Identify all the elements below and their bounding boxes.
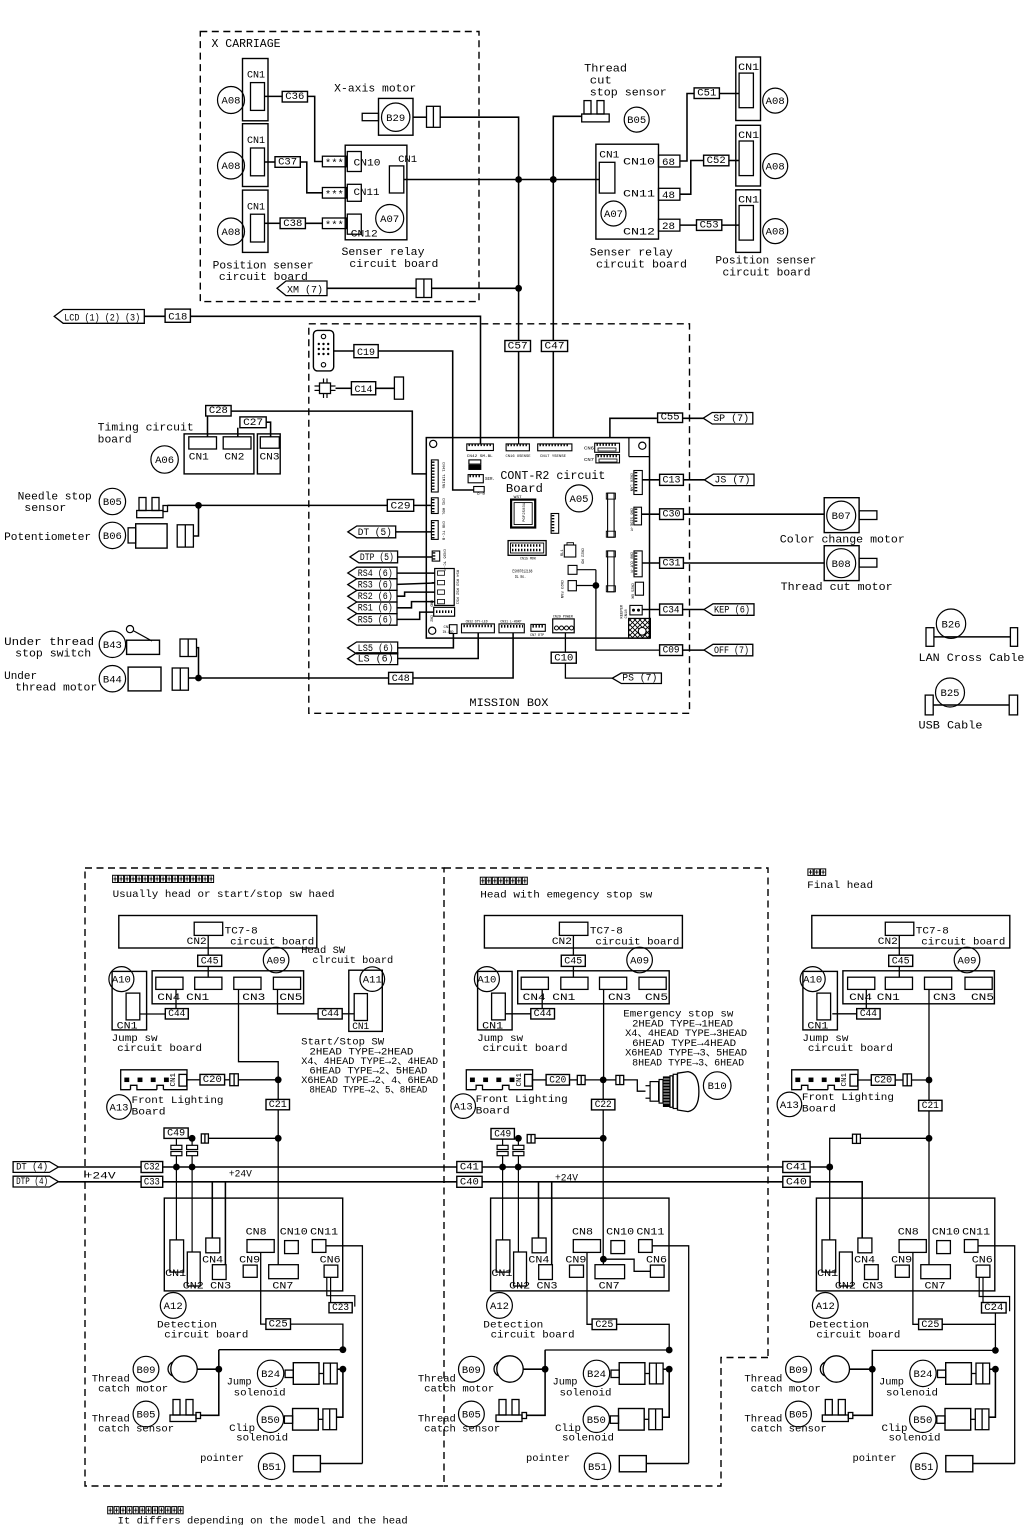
C24 bracket b3 bbox=[979, 1277, 1009, 1311]
connector label C30 bbox=[660, 509, 684, 520]
svg-text:B51: B51 bbox=[915, 1463, 934, 1474]
wire RS2 bbox=[397, 592, 435, 596]
svg-text:A05: A05 bbox=[570, 495, 589, 506]
wire CN3 down b2 bbox=[603, 989, 605, 1080]
left connector CN8 TC-B bbox=[431, 521, 438, 540]
junction bbox=[515, 285, 522, 292]
svg-text:DL No.: DL No. bbox=[515, 576, 526, 580]
svg-text:circuit board: circuit board bbox=[117, 1043, 202, 1055]
svg-text:A08: A08 bbox=[222, 228, 241, 239]
svg-text:8HEAD TYPE→3、6HEAD: 8HEAD TYPE→3、6HEAD bbox=[632, 1058, 744, 1070]
wire C30 to color change motor bbox=[683, 513, 824, 515]
clip solenoid B50 bbox=[910, 1406, 936, 1432]
jump sw circuit board bbox=[803, 971, 838, 1030]
svg-text:A12: A12 bbox=[164, 1302, 183, 1313]
svg-text:C52: C52 bbox=[707, 155, 726, 167]
connector CN3 (head board) bbox=[234, 977, 261, 989]
svg-text:B50: B50 bbox=[913, 1416, 932, 1427]
wire CN2 to C45 bbox=[572, 935, 574, 955]
connector CN11 (detection board) bbox=[312, 1240, 326, 1253]
connector CN1 (head board) bbox=[561, 977, 588, 989]
svg-text:CN3: CN3 bbox=[260, 451, 280, 463]
cap symbol 2 b2 bbox=[513, 1145, 524, 1149]
connector SER bbox=[468, 475, 483, 483]
connector label C55 bbox=[658, 413, 683, 423]
svg-text:C45: C45 bbox=[564, 956, 582, 968]
svg-text:circuit board: circuit board bbox=[723, 268, 811, 280]
wire sensor to junction bbox=[168, 504, 199, 506]
thread catch motor icon bbox=[823, 1356, 849, 1382]
connector CN3 (timing) bbox=[257, 434, 280, 474]
motor connector bbox=[172, 668, 188, 690]
svg-text:CN6: CN6 bbox=[972, 1254, 993, 1266]
wire cap1 to CN1 b1 bbox=[175, 1167, 177, 1240]
svg-text:CN32 STY-LED: CN32 STY-LED bbox=[466, 620, 489, 624]
junction 1350 b3 bbox=[992, 1347, 999, 1354]
svg-text:A10: A10 bbox=[803, 976, 822, 987]
svg-text:CN9: CN9 bbox=[239, 1254, 260, 1266]
wire motor to junction bbox=[188, 677, 198, 679]
wire CN8 CUT-M to C31 bbox=[642, 562, 659, 564]
connector CN1 (head sw board) bbox=[354, 994, 367, 1021]
connector CN6 (detection board) bbox=[650, 1265, 664, 1277]
svg-text:CN11: CN11 bbox=[310, 1226, 338, 1238]
svg-text:CN2: CN2 bbox=[183, 1280, 204, 1292]
wire CN2 to C45 bbox=[898, 935, 900, 955]
wire C19 to CONT-R2 bbox=[378, 351, 474, 490]
wire junction to C29 bbox=[199, 504, 388, 506]
svg-text:Front Lighting: Front Lighting bbox=[476, 1094, 568, 1106]
junction 1138 b2 bbox=[600, 1135, 607, 1142]
svg-text:CN15 MDK: CN15 MDK bbox=[520, 558, 537, 562]
wire C49 line b2 bbox=[535, 1137, 603, 1139]
svg-text:CN9: CN9 bbox=[891, 1254, 912, 1266]
svg-text:C30: C30 bbox=[663, 509, 681, 521]
flag PS (7) bbox=[612, 673, 661, 684]
svg-text:C40: C40 bbox=[460, 1177, 479, 1189]
junction line1 b2 CN2 bbox=[515, 1164, 522, 1171]
board ref A05 bbox=[566, 485, 593, 512]
svg-text:CN5: CN5 bbox=[279, 992, 302, 1004]
svg-text:Head with emegency stop sw: Head with emegency stop sw bbox=[480, 889, 653, 901]
svg-text:solenoid: solenoid bbox=[234, 1387, 286, 1399]
switch ref B43 bbox=[99, 631, 125, 657]
bus line2 taps block1 CN4 bbox=[211, 1182, 213, 1238]
board ref A08 (right top) bbox=[763, 88, 788, 113]
wire sensor to C47 line bbox=[553, 116, 581, 437]
svg-text:CN8: CN8 bbox=[898, 1226, 919, 1238]
connector after C49 b1 bbox=[201, 1134, 208, 1143]
connector CN7 (detection board) bbox=[269, 1265, 299, 1279]
right connector CN6 SIDE-M bbox=[634, 507, 642, 525]
svg-text:CN10: CN10 bbox=[354, 157, 381, 169]
connector after C49 b2 bbox=[527, 1135, 535, 1144]
svg-text:RS4 RS3 RS2 RS1: RS4 RS3 RS2 RS1 bbox=[455, 570, 459, 605]
connector CN10 (detection board) bbox=[285, 1241, 299, 1254]
wire CN20 to C13 bbox=[642, 479, 659, 481]
connector CN10 (detection board) bbox=[611, 1241, 625, 1254]
wire C29 to CONT-R2 bbox=[414, 504, 431, 506]
svg-text:C29: C29 bbox=[391, 501, 411, 513]
connector CN9 (detection board) bbox=[570, 1265, 584, 1277]
svg-text:B50: B50 bbox=[587, 1416, 606, 1427]
svg-text:C13: C13 bbox=[663, 475, 681, 487]
crosshatch block bbox=[629, 618, 651, 638]
connector CN6 (detection board) bbox=[324, 1265, 338, 1277]
flag RS3 (6) bbox=[348, 579, 397, 591]
board ref A08 (right middle) bbox=[763, 154, 788, 179]
svg-text:solenoid: solenoid bbox=[236, 1433, 288, 1445]
sensor ref B05 (needle stop) bbox=[99, 488, 125, 514]
svg-text:circuit board: circuit board bbox=[595, 937, 679, 949]
svg-text:Timing circuit: Timing circuit bbox=[98, 423, 194, 435]
connector below RL1 bbox=[568, 565, 577, 574]
svg-text:RS2 (6): RS2 (6) bbox=[358, 591, 393, 603]
wire junction down to sensor bbox=[201, 1369, 219, 1415]
svg-text:CN3: CN3 bbox=[210, 1280, 231, 1292]
connector on 1138 b3 bbox=[853, 1134, 861, 1143]
switch connector bbox=[180, 639, 197, 657]
svg-text:C19: C19 bbox=[357, 347, 375, 359]
svg-text:B07: B07 bbox=[832, 512, 851, 523]
svg-text:CN3: CN3 bbox=[537, 1280, 558, 1292]
svg-text:CONT-R2 circuit: CONT-R2 circuit bbox=[500, 470, 605, 483]
svg-text:CN1 HOL: CN1 HOL bbox=[441, 498, 445, 515]
svg-text:Position senser: Position senser bbox=[715, 256, 816, 268]
connector label C36 bbox=[282, 91, 307, 102]
svg-text:CN1: CN1 bbox=[117, 1021, 138, 1033]
svg-text:CN12: CN12 bbox=[351, 229, 378, 241]
wire vertical to clip solenoid bbox=[662, 1369, 669, 1417]
cap symbol 1 b1 bbox=[171, 1145, 182, 1149]
svg-text:solenoid: solenoid bbox=[560, 1387, 612, 1399]
svg-text:CN1: CN1 bbox=[599, 150, 619, 162]
connector label C48 bbox=[389, 672, 413, 684]
svg-text:68: 68 bbox=[662, 157, 675, 169]
flag DT (4) bbox=[13, 1162, 58, 1173]
front lighting board connector bbox=[121, 1070, 187, 1090]
motor ref B44 bbox=[99, 666, 125, 692]
sensor relay circuit board A07 (left) bbox=[345, 145, 407, 240]
detection circuit board outline bbox=[816, 1198, 994, 1291]
connector after C20 b3 bbox=[903, 1074, 912, 1086]
wire junction down to sensor bbox=[853, 1369, 873, 1415]
wire CN23 to junction bbox=[576, 585, 596, 587]
svg-text:CN1: CN1 bbox=[247, 135, 265, 147]
jump solenoid B24 bbox=[257, 1360, 283, 1386]
wire motor to junction bbox=[197, 1368, 219, 1370]
board ref A13 bbox=[777, 1092, 802, 1117]
svg-text:C44: C44 bbox=[321, 1008, 339, 1020]
LAN cable ref B26 bbox=[936, 609, 965, 638]
wire DT to board bbox=[396, 531, 432, 533]
footer japanese note bbox=[108, 1507, 183, 1514]
board ref A11 bbox=[360, 967, 385, 992]
wire CN4 to C44 b3 bbox=[865, 989, 867, 1008]
svg-text:C14: C14 bbox=[355, 384, 373, 396]
svg-text:It differs depending on the mo: It differs depending on the model and th… bbox=[118, 1516, 408, 1525]
svg-text:CN2: CN2 bbox=[509, 1280, 530, 1292]
junction bbox=[550, 176, 557, 183]
wire C25 right b3 bbox=[942, 1323, 995, 1325]
connector label C32 bbox=[141, 1162, 163, 1173]
bar connector after C14 bbox=[394, 377, 403, 399]
svg-text:CN1: CN1 bbox=[738, 194, 759, 206]
wire C36 to CN10 bbox=[308, 96, 323, 161]
svg-text:C23: C23 bbox=[332, 1302, 349, 1314]
sensor ref B05 bbox=[786, 1401, 812, 1427]
connector CN3 (detection board) bbox=[212, 1265, 226, 1280]
svg-text:B43: B43 bbox=[103, 641, 122, 652]
right connector CN18 KEEPER bbox=[630, 605, 642, 615]
Head SW circuit board bbox=[349, 970, 383, 1031]
wire jump CN1 to C44 bbox=[140, 1013, 166, 1015]
svg-text:CN4: CN4 bbox=[849, 992, 872, 1004]
wire RS1 bbox=[397, 602, 435, 608]
wire to right sensor board CN1 bbox=[519, 179, 600, 181]
jump sw circuit board bbox=[478, 971, 512, 1030]
svg-text:CN7: CN7 bbox=[925, 1280, 946, 1292]
svg-text:+24V: +24V bbox=[229, 1168, 253, 1180]
svg-text:WST: WST bbox=[514, 496, 523, 500]
svg-text:IN-LBD: IN-LBD bbox=[443, 631, 454, 635]
connector CN17 YSENSE (top) bbox=[538, 444, 572, 451]
svg-text:RL1: RL1 bbox=[561, 550, 565, 556]
clip solenoid B50 bbox=[257, 1406, 283, 1432]
block3 japanese caption bbox=[808, 869, 826, 876]
chip PGF25031 bbox=[511, 500, 535, 528]
svg-text:CN3: CN3 bbox=[862, 1280, 883, 1292]
svg-text:CN31 L-HSKP: CN31 L-HSKP bbox=[500, 620, 522, 624]
component below SER bbox=[474, 487, 485, 493]
flag RS1 (6) bbox=[348, 602, 397, 614]
connector marker *** CN10 bbox=[322, 156, 346, 167]
connector CN3 (detection board) bbox=[865, 1265, 879, 1280]
jump solenoid B24 bbox=[910, 1360, 936, 1386]
svg-text:circuit board: circuit board bbox=[219, 272, 308, 284]
svg-text:B08: B08 bbox=[832, 560, 851, 571]
svg-text:solenoid: solenoid bbox=[886, 1387, 938, 1399]
flag OFF (7) bbox=[704, 644, 753, 656]
svg-text:Usually head or start/stop sw: Usually head or start/stop sw haed bbox=[113, 889, 335, 901]
svg-text:OFF (7): OFF (7) bbox=[714, 645, 749, 657]
wire junction to emergency connector bbox=[603, 1079, 616, 1081]
pot connector bbox=[177, 525, 193, 547]
svg-text:CN3: CN3 bbox=[933, 992, 956, 1004]
thread catch sensor icon bbox=[173, 1400, 180, 1416]
connector label C21 b1 bbox=[266, 1099, 290, 1109]
connector CN3 (detection board) bbox=[539, 1265, 553, 1280]
svg-text:Front Lighting: Front Lighting bbox=[802, 1092, 894, 1104]
junction line1 b3 bbox=[826, 1164, 833, 1171]
junction on C09 line bbox=[593, 582, 600, 589]
svg-text:A10: A10 bbox=[477, 976, 496, 987]
svg-text:CN29 POWER: CN29 POWER bbox=[553, 615, 574, 619]
junction at C49 b2 bbox=[515, 1135, 522, 1142]
left connector CN1 HOL bbox=[431, 498, 438, 514]
right connector CN8 CUT-M bbox=[634, 551, 642, 577]
wire RS3 bbox=[397, 583, 435, 584]
wire CN1 to C38 bbox=[265, 222, 281, 224]
svg-text:CN23 FAN: CN23 FAN bbox=[559, 580, 563, 598]
bus wire line2 block1 bbox=[163, 1181, 457, 1183]
position sensor board 3 (bottom) bbox=[243, 190, 269, 252]
wire pointer to vertical bbox=[646, 1463, 688, 1465]
connector label C34 bbox=[660, 604, 683, 615]
wire CN4 to C44 bbox=[175, 989, 177, 1008]
connector label C52 bbox=[704, 155, 729, 166]
wire C18 to CONT-R2 bbox=[190, 316, 480, 444]
svg-text:C18: C18 bbox=[168, 312, 187, 324]
wire C55 to board bbox=[610, 418, 657, 437]
wire cap2 to CN2 b1 bbox=[191, 1167, 193, 1252]
connector CN4 (head board) bbox=[156, 977, 183, 989]
wire to junction b2 bbox=[585, 1079, 603, 1081]
LAN cross cable icon bbox=[926, 628, 934, 647]
wire vertical to clip solenoid bbox=[337, 1369, 343, 1417]
svg-text:CN1: CN1 bbox=[189, 451, 209, 463]
svg-text:A08: A08 bbox=[222, 162, 241, 173]
svg-text:B05: B05 bbox=[103, 498, 122, 509]
wire pointer to vertical bbox=[320, 1463, 362, 1465]
junction at jump solenoid bbox=[666, 1366, 673, 1373]
bus wire DT line bbox=[58, 1166, 141, 1168]
connector CN7 (detection board) bbox=[595, 1265, 625, 1279]
svg-text:CN20 LAN: CN20 LAN bbox=[629, 473, 633, 491]
svg-text:Potentiometer: Potentiometer bbox=[4, 532, 91, 544]
connector label C20 b1 bbox=[200, 1074, 225, 1085]
wire icon to C14 bbox=[336, 387, 352, 389]
svg-text:PS (7): PS (7) bbox=[622, 673, 657, 685]
wire C09 to OFF flag bbox=[683, 649, 704, 651]
svg-text:CN10: CN10 bbox=[280, 1226, 308, 1238]
wire C28 to CN1 bbox=[207, 416, 209, 437]
svg-text:cut: cut bbox=[590, 75, 612, 87]
connector CN1 (jump board) bbox=[492, 993, 506, 1020]
svg-text:pointer: pointer bbox=[526, 1453, 570, 1465]
svg-text:Under thread: Under thread bbox=[4, 637, 94, 649]
svg-text:LS (6): LS (6) bbox=[358, 654, 394, 666]
svg-text:C38: C38 bbox=[283, 218, 302, 230]
junction at jump solenoid bbox=[992, 1366, 999, 1373]
wire C37 to CN11 bbox=[300, 162, 322, 193]
svg-text:CN8 CUT-M: CN8 CUT-M bbox=[629, 552, 633, 573]
connector WSTCP bbox=[551, 514, 559, 534]
connector label C47 bbox=[541, 341, 567, 352]
flag JS (7) bbox=[704, 474, 754, 486]
X CARRIAGE enclosure (dashed) bbox=[200, 32, 479, 302]
svg-text:C41: C41 bbox=[460, 1162, 479, 1174]
wire C13 to JS flag bbox=[683, 479, 704, 481]
motor ref B09 bbox=[133, 1356, 159, 1382]
svg-text:+24V: +24V bbox=[555, 1173, 579, 1185]
TC7-8 circuit board bbox=[484, 916, 682, 949]
wire motor to junction bbox=[440, 117, 518, 179]
junction C20/CN3 b1 bbox=[275, 1076, 282, 1083]
sensor ref B05 bbox=[624, 107, 649, 132]
svg-text:A12: A12 bbox=[490, 1302, 509, 1313]
connector label C41 block3 bbox=[783, 1162, 810, 1173]
board ref A13 bbox=[451, 1094, 476, 1119]
flag XM (7) bbox=[277, 281, 327, 296]
svg-text:KEEPER: KEEPER bbox=[621, 604, 625, 618]
connector label C21 b3 bbox=[919, 1100, 942, 1111]
head connector board A09 bbox=[843, 971, 995, 1004]
svg-text:X CARRIAGE: X CARRIAGE bbox=[212, 38, 281, 51]
svg-text:C44: C44 bbox=[534, 1008, 552, 1020]
potentiometer icon bbox=[128, 528, 136, 543]
svg-text:KEP (6): KEP (6) bbox=[714, 604, 750, 616]
svg-text:circuit board: circuit board bbox=[596, 259, 687, 271]
junction above CN7 b2 bbox=[600, 1256, 607, 1263]
connector CN4 (detection board) bbox=[206, 1238, 220, 1253]
svg-text:A09: A09 bbox=[267, 957, 286, 968]
flag SP (7) bbox=[703, 413, 753, 425]
svg-text:CN9: CN9 bbox=[565, 1254, 586, 1266]
connector CN6 (detection board) bbox=[976, 1265, 990, 1277]
svg-text:CN22 RD: CN22 RD bbox=[580, 548, 584, 565]
left connector CN36 TC-P bbox=[432, 551, 440, 561]
position sensor board 3 (right) bbox=[736, 190, 761, 253]
svg-text:SP (7): SP (7) bbox=[713, 413, 749, 425]
connector after C20 b2 bbox=[577, 1075, 585, 1084]
svg-text:A13: A13 bbox=[110, 1104, 129, 1115]
wire to CN3 line b3 bbox=[912, 1079, 930, 1081]
relay RL1 CN22 RD bbox=[564, 545, 576, 557]
wire CN8 to C25 b2 bbox=[587, 1252, 592, 1324]
wire conn to corner b3 bbox=[830, 1138, 853, 1240]
wire junction down through C22 bbox=[602, 1080, 604, 1138]
svg-text:A08: A08 bbox=[766, 228, 785, 239]
connector CN5 (head board) bbox=[965, 977, 992, 989]
connector CN2 (detection board) bbox=[839, 1252, 852, 1286]
svg-text:B24: B24 bbox=[587, 1370, 606, 1381]
connector label C44 b2 bbox=[531, 1009, 555, 1019]
wire connector to junction bbox=[432, 287, 519, 289]
svg-text:B26: B26 bbox=[942, 620, 961, 631]
connector CN23 FAN bbox=[568, 581, 576, 591]
svg-text:pointer: pointer bbox=[200, 1453, 244, 1465]
svg-text:stop switch: stop switch bbox=[15, 649, 91, 661]
wire CN3 down b1 bbox=[239, 989, 279, 1138]
wire to emergency stop button bbox=[624, 1080, 646, 1091]
wire dsub to C19 bbox=[334, 350, 354, 352]
svg-text:CN3: CN3 bbox=[608, 992, 631, 1004]
wire C10 to PS flag bbox=[565, 663, 612, 678]
connector at X-axis motor bbox=[427, 106, 441, 127]
svg-text:ESH07012188: ESH07012188 bbox=[512, 571, 532, 575]
board ref A09 bbox=[627, 947, 653, 973]
svg-text:A07: A07 bbox=[380, 215, 399, 226]
svg-text:A12: A12 bbox=[816, 1302, 835, 1313]
thread cut stop sensor icon bbox=[584, 101, 591, 114]
connector label C38 bbox=[280, 218, 305, 229]
wire C45 to CN1 bbox=[207, 966, 209, 977]
connector CN10 (detection board) bbox=[937, 1241, 951, 1254]
svg-text:C55: C55 bbox=[661, 412, 680, 424]
svg-text:Thread: Thread bbox=[584, 64, 627, 76]
bus line2 taps block1 CN3 bbox=[224, 1182, 226, 1265]
connector CN1 (jump board) bbox=[126, 993, 140, 1020]
svg-text:CN10: CN10 bbox=[606, 1226, 634, 1238]
connector label C45 bbox=[561, 955, 585, 966]
svg-text:CN11: CN11 bbox=[636, 1226, 664, 1238]
board ref A08 (top) bbox=[218, 87, 245, 114]
svg-text:CN6: CN6 bbox=[320, 1254, 341, 1266]
CONT-R2 circuit board outline bbox=[426, 438, 649, 638]
wire frontlight to C20 bbox=[187, 1079, 200, 1081]
USB cable ref B25 bbox=[936, 678, 965, 707]
